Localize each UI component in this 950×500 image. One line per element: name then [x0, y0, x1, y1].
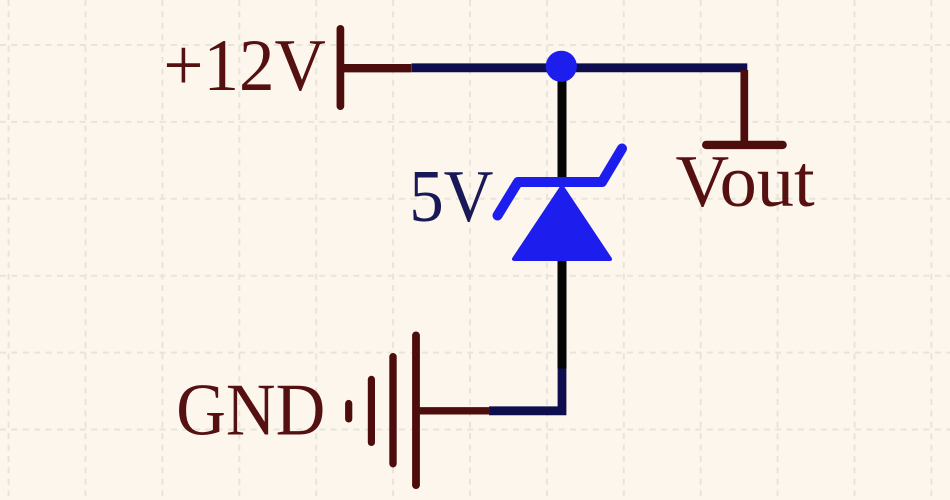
svg-text:5V: 5V [409, 156, 493, 238]
svg-text:Vout: Vout [676, 141, 816, 223]
svg-text:+12V: +12V [163, 24, 325, 107]
svg-text:GND: GND [176, 369, 325, 451]
